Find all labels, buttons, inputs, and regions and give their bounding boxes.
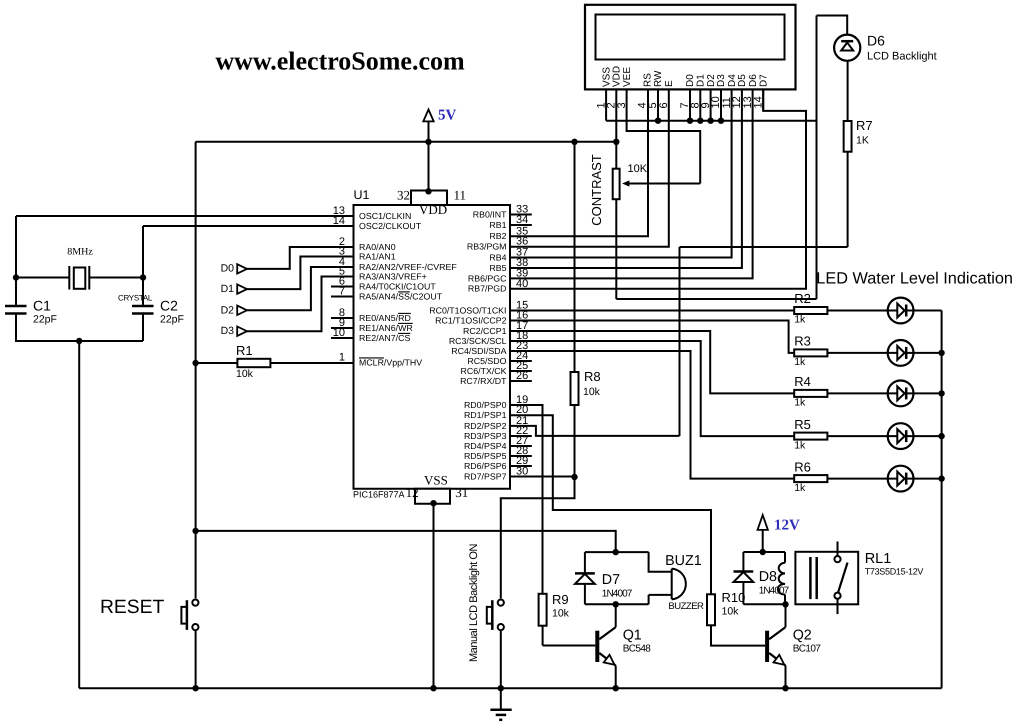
svg-text:RW: RW — [653, 70, 664, 87]
svg-text:Q2: Q2 — [793, 628, 812, 644]
svg-text:RB1: RB1 — [489, 220, 506, 230]
svg-text:RD7/PSP7: RD7/PSP7 — [464, 471, 507, 481]
svg-text:1k: 1k — [794, 356, 806, 368]
svg-text:RA4/T0CKI/C1OUT: RA4/T0CKI/C1OUT — [359, 281, 436, 291]
svg-text:RB4: RB4 — [489, 252, 506, 262]
svg-text:R9: R9 — [552, 592, 569, 607]
svg-text:R4: R4 — [794, 374, 811, 389]
svg-text:RA2/AN2/VREF-/CVREF: RA2/AN2/VREF-/CVREF — [359, 262, 457, 272]
svg-text:1: 1 — [339, 352, 345, 364]
svg-text:CONTRAST: CONTRAST — [589, 154, 604, 226]
svg-text:RB7/PGD: RB7/PGD — [468, 284, 507, 294]
svg-text:31: 31 — [455, 485, 468, 500]
svg-text:10k: 10k — [552, 608, 570, 620]
svg-text:12: 12 — [406, 485, 419, 500]
svg-text:RA3/AN3/VREF+: RA3/AN3/VREF+ — [359, 271, 427, 281]
svg-text:D5: D5 — [737, 74, 748, 87]
svg-text:D3: D3 — [221, 325, 235, 337]
svg-text:D0: D0 — [221, 263, 235, 275]
svg-text:RS: RS — [643, 73, 654, 87]
svg-text:1K: 1K — [856, 135, 869, 147]
svg-text:RD1/PSP1: RD1/PSP1 — [464, 410, 507, 420]
svg-text:7: 7 — [339, 286, 345, 298]
svg-text:E: E — [664, 80, 675, 87]
svg-text:LED Water Level Indication: LED Water Level Indication — [816, 270, 1013, 288]
svg-text:RB0/INT: RB0/INT — [473, 209, 507, 219]
svg-text:BUZZER: BUZZER — [668, 601, 704, 612]
svg-text:R10: R10 — [722, 590, 746, 605]
svg-text:VDD: VDD — [419, 202, 447, 217]
svg-text:6: 6 — [658, 102, 670, 108]
svg-text:32: 32 — [397, 188, 410, 203]
svg-text:1k: 1k — [794, 482, 806, 494]
svg-text:RC6/TX/CK: RC6/TX/CK — [461, 366, 507, 376]
svg-text:RA0/AN0: RA0/AN0 — [359, 242, 396, 252]
svg-text:D6: D6 — [867, 33, 885, 49]
svg-text:10k: 10k — [236, 368, 254, 380]
svg-text:10k: 10k — [583, 386, 601, 398]
svg-text:Manual LCD Backlight ON: Manual LCD Backlight ON — [468, 543, 480, 662]
svg-text:R7: R7 — [856, 118, 873, 133]
svg-text:10K: 10K — [628, 163, 648, 175]
svg-text:D7: D7 — [602, 572, 620, 588]
svg-text:RA1/AN1: RA1/AN1 — [359, 251, 396, 261]
svg-text:10k: 10k — [722, 606, 740, 618]
svg-text:PIC16F877A: PIC16F877A — [353, 490, 405, 500]
svg-text:22pF: 22pF — [33, 314, 57, 326]
svg-text:www.electroSome.com: www.electroSome.com — [215, 46, 465, 75]
svg-text:22pF: 22pF — [160, 314, 184, 326]
svg-text:BUZ1: BUZ1 — [665, 553, 702, 569]
svg-text:1N4007: 1N4007 — [602, 589, 633, 600]
svg-text:C2: C2 — [160, 298, 178, 314]
svg-text:BC107: BC107 — [793, 644, 822, 655]
svg-text:RC5/SDO: RC5/SDO — [467, 356, 506, 366]
svg-text:R3: R3 — [794, 334, 811, 349]
svg-text:RD2/PSP2: RD2/PSP2 — [464, 421, 507, 431]
svg-text:RD5/PSP5: RD5/PSP5 — [464, 451, 507, 461]
svg-text:D1: D1 — [221, 283, 235, 295]
svg-text:Q1: Q1 — [623, 628, 642, 644]
svg-text:RD0/PSP0: RD0/PSP0 — [464, 400, 507, 410]
svg-text:OSC2/CLKOUT: OSC2/CLKOUT — [359, 221, 422, 231]
svg-text:RD6/PSP6: RD6/PSP6 — [464, 461, 507, 471]
svg-text:RB2: RB2 — [489, 231, 506, 241]
svg-text:RC3/SCK/SCL: RC3/SCK/SCL — [449, 336, 507, 346]
svg-text:OSC1/CLKIN: OSC1/CLKIN — [359, 211, 411, 221]
svg-text:RC7/RX/DT: RC7/RX/DT — [460, 376, 507, 386]
svg-text:C1: C1 — [33, 298, 51, 314]
svg-text:12V: 12V — [774, 518, 800, 534]
svg-text:RC2/CCP1: RC2/CCP1 — [463, 326, 507, 336]
svg-text:RE2/AN7/CS: RE2/AN7/CS — [359, 333, 410, 343]
svg-text:BC548: BC548 — [623, 644, 652, 655]
svg-text:D2: D2 — [706, 74, 717, 87]
svg-text:R6: R6 — [794, 459, 811, 474]
svg-text:RL1: RL1 — [865, 551, 892, 567]
svg-text:10: 10 — [333, 327, 345, 339]
svg-text:RA5/AN4/SS/C2OUT: RA5/AN4/SS/C2OUT — [359, 291, 443, 301]
svg-text:1k: 1k — [794, 314, 806, 326]
svg-text:VEE: VEE — [622, 67, 633, 87]
svg-text:R8: R8 — [584, 369, 601, 384]
svg-text:RB3/PGM: RB3/PGM — [467, 242, 507, 252]
svg-text:8MHz: 8MHz — [67, 247, 93, 258]
svg-text:RC4/SDI/SDA: RC4/SDI/SDA — [451, 346, 506, 356]
svg-text:5V: 5V — [438, 108, 457, 124]
svg-text:RESET: RESET — [100, 597, 165, 618]
svg-text:D2: D2 — [221, 304, 235, 316]
svg-text:LCD Backlight: LCD Backlight — [867, 51, 937, 63]
svg-text:RD4/PSP4: RD4/PSP4 — [464, 441, 507, 451]
svg-text:CRYSTAL: CRYSTAL — [118, 294, 153, 303]
svg-text:RC1/T1OSI/CCP2: RC1/T1OSI/CCP2 — [435, 315, 506, 325]
svg-text:14: 14 — [333, 215, 345, 227]
svg-text:RC0/T1OSO/T1CKI: RC0/T1OSO/T1CKI — [429, 305, 506, 315]
svg-text:RE0/AN5/RD: RE0/AN5/RD — [359, 313, 411, 323]
svg-text:T73S5D15-12V: T73S5D15-12V — [865, 567, 924, 577]
svg-text:RE1/AN6/WR: RE1/AN6/WR — [359, 323, 413, 333]
svg-text:1k: 1k — [794, 397, 806, 409]
svg-text:RD3/PSP3: RD3/PSP3 — [464, 431, 507, 441]
svg-text:D8: D8 — [759, 569, 777, 585]
svg-text:R1: R1 — [236, 343, 253, 358]
svg-text:VSS: VSS — [424, 473, 448, 488]
svg-text:D6: D6 — [748, 74, 759, 87]
svg-text:11: 11 — [454, 188, 467, 203]
svg-text:D7: D7 — [758, 74, 769, 87]
svg-text:D3: D3 — [716, 74, 727, 87]
svg-text:MCLR/Vpp/THV: MCLR/Vpp/THV — [359, 357, 422, 367]
svg-text:R5: R5 — [794, 417, 811, 432]
svg-text:RB5: RB5 — [489, 263, 506, 273]
svg-text:1k: 1k — [794, 439, 806, 451]
svg-text:U1: U1 — [354, 188, 370, 202]
svg-text:RB6/PGC: RB6/PGC — [468, 273, 507, 283]
